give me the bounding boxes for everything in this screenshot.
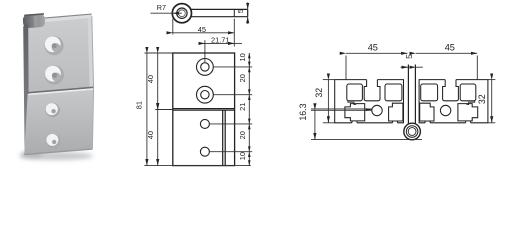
svg-text:32: 32: [477, 94, 487, 104]
countersunk hole top 2: [45, 65, 64, 84]
dim 81: [146, 53, 148, 165]
shadow under hinge: [19, 152, 93, 160]
dim 5 (strip thickness): [247, 2, 249, 9]
lower hole 1: [46, 103, 60, 117]
upper leaf face: [27, 16, 94, 93]
plain hole 4: [200, 147, 209, 156]
leaf split upper line: [173, 108, 235, 110]
top surface band: [26, 14, 92, 24]
hinge leaf right (section): [414, 65, 416, 124]
svg-text:5: 5: [404, 54, 414, 59]
countersunk hole 2 outer: [197, 86, 214, 103]
bottom edge: [24, 149, 92, 155]
countersunk hole 2 inner: [201, 91, 209, 99]
knuckle mid circle: [177, 8, 187, 18]
knuckle outer circle: [172, 4, 191, 23]
dim 40 lower: [157, 110, 159, 166]
lower hole 2: [46, 134, 60, 148]
knuckle outer (section): [404, 123, 421, 140]
dim 32 right: [491, 80, 493, 123]
dim 45 (top view width): [172, 19, 174, 35]
right extension hole2: [214, 94, 253, 96]
svg-text:32: 32: [314, 88, 324, 98]
countersunk hole 1 outer: [197, 59, 214, 76]
left profile: [335, 80, 404, 123]
svg-text:40: 40: [146, 131, 155, 139]
svg-text:45: 45: [445, 42, 455, 52]
hinge joint line: [28, 87, 94, 93]
dim 5 (leaves): [401, 66, 409, 68]
countersunk hole 1 inner: [201, 63, 209, 71]
svg-text:81: 81: [135, 101, 144, 109]
svg-text:R7: R7: [157, 3, 166, 12]
strip divider: [233, 9, 235, 16]
dim 21.71 (hole offset): [204, 40, 206, 62]
left extension split: [155, 109, 173, 111]
dim 32 right extension bottom: [488, 122, 495, 124]
right extension hole3: [210, 123, 253, 125]
knuckle cylinder top left: [23, 13, 46, 28]
right extension hole4: [210, 151, 253, 153]
knuckle mid (section): [406, 126, 418, 138]
right profile (mirrored): [419, 80, 488, 123]
hinge leaf left (section): [407, 65, 409, 124]
leaf split lower line: [173, 109, 235, 111]
svg-text:21.71: 21.71: [211, 35, 230, 44]
countersunk hole top 1: [44, 36, 63, 55]
R7 leader: [151, 12, 182, 14]
knuckle pin circle: [179, 10, 186, 17]
svg-text:40: 40: [146, 75, 155, 83]
svg-text:16.3: 16.3: [298, 103, 308, 120]
svg-text:10: 10: [238, 152, 247, 160]
dim 32 right extension top: [488, 79, 495, 81]
dim 40 upper: [157, 53, 159, 109]
upper leaf right bevel highlight: [88, 16, 94, 88]
lower leaf face: [24, 90, 93, 155]
leaf strip top line: [191, 8, 247, 10]
bottom extension: [144, 165, 251, 167]
dim 32 left extension bottom: [323, 122, 335, 124]
plain hole 3: [200, 119, 209, 128]
svg-text:20: 20: [238, 74, 247, 82]
svg-text:21: 21: [238, 103, 247, 111]
right chain arrows: [248, 53, 251, 166]
front view outline: [173, 53, 235, 166]
knuckle tangent line: [311, 139, 422, 141]
right extension hole1: [214, 66, 253, 68]
svg-text:10: 10: [238, 53, 247, 61]
leaf strip bottom line: [191, 16, 248, 18]
knuckle fold line 2: [224, 110, 226, 165]
left extension top edge: [145, 52, 173, 54]
right edge: [92, 16, 94, 149]
dim 45 right: [476, 56, 478, 80]
left dark edge band: [23, 24, 29, 154]
knuckle pin (section): [408, 128, 416, 136]
knuckle fold line 1: [222, 110, 224, 165]
svg-text:45: 45: [368, 42, 378, 52]
leaf strip end cap: [247, 9, 249, 16]
dim 32 left: [327, 80, 329, 123]
svg-text:45: 45: [198, 25, 206, 34]
dim 32 left extension top: [323, 79, 335, 81]
right chain dim line: [248, 53, 250, 166]
svg-text:20: 20: [238, 131, 247, 139]
dim 45 left: [345, 56, 347, 80]
dim 16.3: [314, 110, 316, 140]
svg-text:5: 5: [236, 9, 245, 13]
dim 16.3 reference line: [311, 108, 372, 110]
